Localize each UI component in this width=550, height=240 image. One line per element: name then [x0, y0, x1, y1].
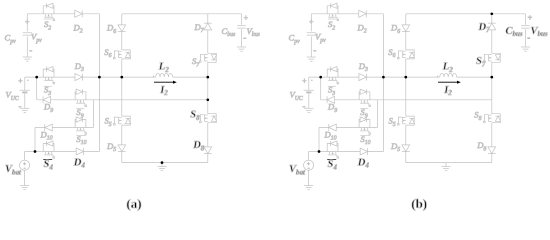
wire — [309, 151, 384, 153]
node VUC+ — [35, 76, 38, 79]
diode D9 — [327, 96, 335, 103]
ground — [307, 56, 316, 58]
wire — [321, 99, 492, 101]
mosfet S8 — [492, 114, 500, 123]
diode D5 — [402, 145, 410, 152]
wire — [36, 77, 38, 100]
node L2 left — [382, 76, 385, 79]
ground — [304, 185, 313, 187]
wire — [24, 152, 26, 161]
wire — [121, 32, 123, 50]
svg-text:-: - — [527, 32, 530, 42]
circuit (a) — [5, 3, 261, 211]
wire — [35, 127, 93, 129]
capacitor Cpv — [23, 32, 32, 34]
wire — [491, 62, 493, 113]
wire — [320, 77, 322, 100]
node Vbat+ — [318, 150, 321, 153]
wire — [310, 14, 312, 32]
wire — [311, 13, 383, 15]
wire — [207, 154, 209, 163]
wire — [405, 32, 407, 50]
mosfet S3bar — [43, 69, 54, 77]
mosfet S2bar — [43, 6, 54, 14]
diode D2 — [359, 10, 367, 17]
wire — [308, 170, 310, 185]
source Vbat — [304, 160, 314, 170]
battery VUC — [20, 89, 30, 91]
node S8 top — [206, 98, 209, 101]
wire — [405, 59, 407, 116]
wire — [491, 30, 493, 53]
diode D8 — [488, 147, 496, 154]
label S3bar — [44, 85, 52, 87]
diode D9 — [43, 96, 51, 103]
wire — [308, 93, 310, 108]
inductor L2 — [156, 73, 173, 77]
wire — [121, 14, 123, 25]
label S3bar — [328, 85, 336, 87]
wire — [173, 76, 208, 78]
mosfet S6 — [406, 50, 414, 59]
mosfet S4bar — [43, 144, 54, 152]
wire — [308, 152, 310, 161]
ground — [20, 107, 29, 109]
circuit (b) — [289, 3, 548, 211]
ground — [441, 166, 450, 168]
diode D10 — [45, 124, 53, 131]
diode D8 — [204, 147, 212, 154]
wire — [525, 29, 527, 47]
wire — [122, 162, 208, 164]
wire — [309, 76, 440, 78]
ground — [304, 107, 313, 109]
wire — [27, 13, 99, 15]
node L2 left — [98, 76, 101, 79]
diode D7 — [488, 23, 496, 30]
wire — [308, 77, 310, 90]
diode D7 — [204, 23, 212, 30]
wire — [491, 154, 493, 163]
wire — [445, 163, 447, 167]
diode D3 — [359, 74, 367, 81]
ground — [237, 46, 246, 48]
mosfet S9bar — [359, 92, 370, 100]
inductor L2 — [440, 73, 457, 77]
mosfet S8 — [208, 114, 216, 123]
label S10bar — [76, 135, 86, 137]
ground — [157, 166, 166, 168]
wire — [318, 128, 320, 152]
label S10bar — [360, 135, 370, 137]
current arrow I2 — [438, 81, 457, 83]
ground — [23, 56, 32, 58]
wire — [37, 99, 208, 101]
wire — [34, 128, 36, 152]
mosfet S4bar — [327, 144, 338, 152]
wire — [319, 127, 377, 129]
label S2bar — [44, 18, 52, 20]
diode D3 — [75, 74, 83, 81]
ground — [521, 46, 530, 48]
mosfet S10bar — [75, 120, 86, 128]
node Vbat+ — [34, 150, 37, 153]
diode D5 — [118, 145, 126, 152]
capacitor Cpv — [307, 32, 316, 34]
diode D2 — [75, 10, 83, 17]
current arrow I2 — [154, 81, 173, 83]
node L2 right — [206, 76, 209, 79]
wire — [491, 123, 493, 147]
wire — [491, 14, 493, 23]
wire — [25, 76, 156, 78]
svg-text:-: - — [313, 45, 316, 55]
label S9bar — [76, 108, 84, 110]
wire — [241, 14, 243, 25]
wire — [405, 14, 407, 25]
wire — [161, 163, 163, 167]
wire — [24, 77, 26, 90]
mosfet S2bar — [327, 6, 338, 14]
wire — [405, 152, 407, 163]
mosfet S5 — [122, 116, 130, 125]
node leg-left mid — [404, 76, 407, 79]
node D7 top — [490, 12, 493, 15]
mosfet S7 — [208, 53, 216, 62]
svg-text:(a): (a) — [126, 196, 141, 211]
svg-text:+: + — [244, 14, 249, 23]
source Vbat — [20, 160, 30, 170]
diode D6 — [402, 25, 410, 32]
svg-text:+: + — [25, 18, 30, 27]
wire — [207, 30, 209, 53]
node ground tap — [161, 161, 164, 164]
svg-text:-: - — [303, 101, 306, 111]
wire — [98, 14, 100, 152]
diode D6 — [118, 25, 126, 32]
svg-text:+: + — [302, 77, 307, 86]
node mark — [153, 76, 154, 77]
wire — [24, 93, 26, 108]
diode D4 — [76, 148, 84, 155]
mosfet S7 — [492, 53, 500, 62]
wire — [26, 14, 28, 32]
node leg-left mid — [120, 76, 123, 79]
label S2bar — [328, 18, 336, 20]
svg-text:+: + — [18, 77, 23, 86]
wire — [457, 76, 492, 78]
wire — [92, 100, 94, 128]
mosfet S6 — [122, 50, 130, 59]
wire — [121, 152, 123, 163]
node L2 right — [490, 76, 493, 79]
diode D10 — [329, 124, 337, 131]
wire — [406, 162, 492, 164]
capacitor Cbus — [237, 25, 246, 27]
wire — [207, 62, 209, 113]
wire — [376, 100, 378, 128]
wire — [207, 123, 209, 147]
mosfet S10bar — [359, 120, 370, 128]
wire — [121, 59, 123, 116]
node mark — [311, 79, 313, 81]
node mark — [437, 76, 438, 77]
node mark — [27, 79, 29, 81]
wire — [25, 151, 100, 153]
mosfet S9bar — [75, 92, 86, 100]
svg-text:+: + — [528, 14, 533, 23]
mosfet S3bar — [327, 69, 338, 77]
label S9bar — [360, 108, 368, 110]
node VUC+ — [319, 76, 322, 79]
wire — [382, 14, 384, 152]
wire — [121, 125, 123, 145]
wire — [122, 13, 242, 15]
svg-text:-: - — [19, 101, 22, 111]
ground — [20, 185, 29, 187]
wire — [207, 14, 209, 23]
wire — [24, 170, 26, 185]
wire — [310, 37, 312, 58]
label S4bar — [327, 159, 336, 161]
wire — [26, 37, 28, 58]
wire — [241, 29, 243, 47]
svg-text:+: + — [309, 18, 314, 27]
svg-text:(b): (b) — [411, 196, 427, 211]
svg-text:-: - — [243, 32, 246, 42]
wire — [525, 14, 527, 25]
battery VUC — [304, 89, 314, 91]
wire — [406, 13, 526, 15]
label S4bar — [43, 159, 52, 161]
wire — [405, 125, 407, 145]
capacitor Cbus — [521, 25, 530, 27]
mosfet S5 — [406, 116, 414, 125]
svg-text:-: - — [29, 45, 32, 55]
diode D4 — [360, 148, 368, 155]
